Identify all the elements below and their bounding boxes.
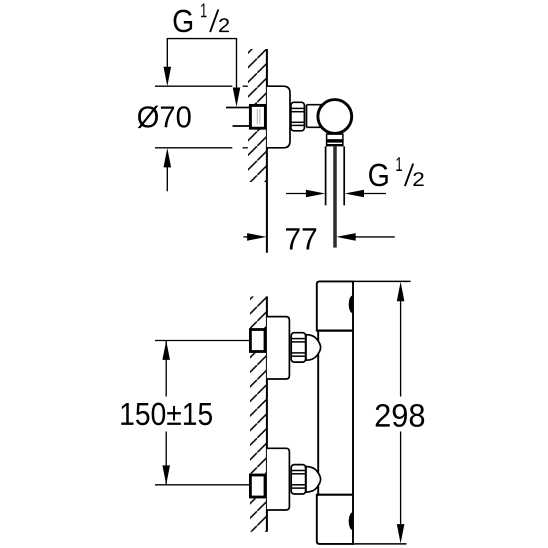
text 150±15 [121,403,212,426]
dimension G1/2 right: right arrow [345,190,364,198]
in-wall fitting square upper (bottom view) [250,330,265,352]
dimension G1/2 top: right leg [236,38,238,90]
union dome lower (bottom view) [306,467,321,493]
wall hatch upper part (top view) [248,49,267,105]
control knob circle (top view) [318,100,352,134]
supply pipe edges behind wall (top view) [226,107,251,109]
150 dimension extension line lower [155,484,250,486]
union nut lower (bottom view) [291,465,305,494]
valve block between nut and knob [307,105,331,128]
escutcheon lower (bottom view) [267,448,290,510]
safestop button lower (black) [349,513,353,531]
in-wall fitting square lower (bottom view) [250,475,265,497]
union dome upper (bottom view) [306,335,321,361]
escutcheon upper (bottom view) [267,317,290,379]
wall hatch part 1 (bottom view) [250,296,267,329]
dimension G1/2 top: horizontal line [167,38,236,40]
wall hatch part 3 (bottom view) [250,499,267,532]
text G 1/2 (right) [369,164,388,187]
Ø70 lower arrow (pointing up) and tail [164,148,172,167]
shower hose lines [333,146,335,247]
mixer body with end caps (bottom view) [317,281,353,544]
arrowhead down onto supply pipe top edge [233,88,241,107]
union nut upper (bottom view) [291,333,305,362]
wall hatch lower part (top view) [248,129,267,182]
text 77 [286,228,316,249]
wall hatch part 2 (bottom view) [250,352,267,473]
text G 1/2 (top) [174,10,193,33]
Ø70 extension line top [155,85,232,87]
in-wall fitting square (top view) [250,105,265,128]
Ø70 extension line bottom [155,147,232,149]
dimension line 298 [400,301,402,397]
wall face line (bottom view) [266,296,268,531]
thread detail lines in fitting [256,109,258,125]
298 extension line top (body top edge extended) [352,280,411,282]
dimension G1/2 right: left arrow [286,193,308,195]
dimension 77: right arrow [336,233,355,241]
outlet collar band 1 [327,134,343,140]
outlet fitting sides [325,146,327,205]
cap junction line upper [317,330,353,332]
298 extension line bottom [352,543,407,545]
150 dimension extension line upper [155,340,250,342]
dimension G1/2 top: left leg (shared with Ø70 upper arrow shaft) [166,38,168,70]
text 298 [376,404,425,427]
dimension 77: left arrow [244,236,250,238]
text Ø70 [138,106,191,128]
arrowhead down onto Ø70 extension line [164,67,172,86]
union nut (top view) [291,102,305,131]
wall face line (top view), continues down as 77-dim extension [266,49,268,253]
safestop button upper (black) [349,296,353,314]
cap junction line lower [317,494,353,496]
dimension line 150±15 with outward arrows [165,341,167,397]
outlet collar band 2 (thick rings) [327,140,343,142]
escutcheon (top view) [267,86,290,148]
